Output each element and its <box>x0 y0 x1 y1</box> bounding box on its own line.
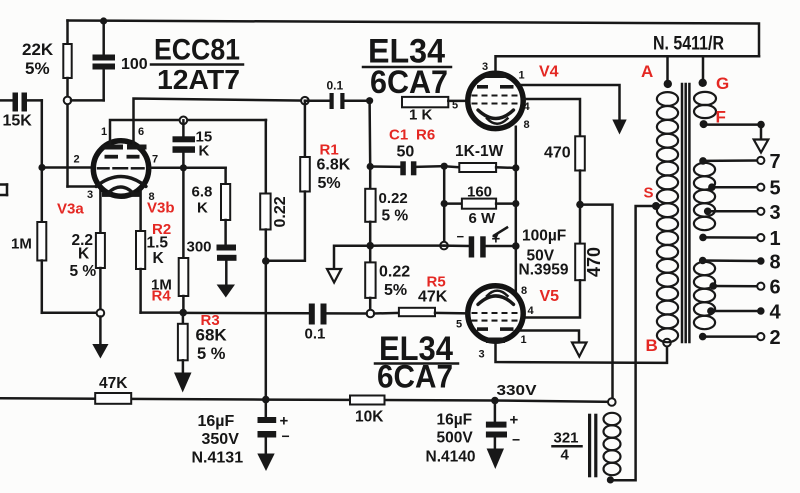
svg-text:V3b: V3b <box>147 200 175 217</box>
transformer G-F winding <box>694 92 716 118</box>
svg-text:F: F <box>716 108 726 127</box>
capacitor input <box>0 93 42 130</box>
svg-text:8: 8 <box>770 252 781 274</box>
svg-text:100: 100 <box>121 56 148 73</box>
wire plate V3a (pin1) <box>110 120 266 146</box>
node screen junction <box>576 201 584 209</box>
svg-text:4: 4 <box>561 447 570 464</box>
svg-text:3: 3 <box>87 189 93 201</box>
resistor 1K grid stopper V4 <box>402 97 468 124</box>
svg-text:160: 160 <box>467 183 492 200</box>
svg-text:R6: R6 <box>416 127 435 144</box>
svg-text:8: 8 <box>521 285 527 297</box>
svg-text:N.4131: N.4131 <box>192 450 244 467</box>
node B+ front end <box>262 257 270 265</box>
ground arrow under 16uF-350 <box>257 454 274 472</box>
wire to ground arrow (hollow) <box>327 246 370 283</box>
node ring V5 grid junction <box>367 310 375 318</box>
resistor 160 6W <box>444 183 516 227</box>
wire cathode column V4 <box>515 127 518 246</box>
resistor R4 1M grid leak V3b <box>151 168 188 313</box>
node choke bottom <box>607 476 614 483</box>
wire top B+ rail <box>68 21 760 57</box>
wire cathode V5 <box>515 246 518 296</box>
svg-text:V4: V4 <box>539 64 559 81</box>
node ring plate V3a <box>180 117 188 125</box>
capacitor 100uF 50V <box>370 228 569 279</box>
node grid V3b <box>180 164 187 171</box>
svg-text:100µF: 100µF <box>522 228 566 245</box>
svg-text:68K: 68K <box>196 326 228 345</box>
capacitor 0.1 lower coupling <box>305 304 367 343</box>
svg-text:470: 470 <box>584 247 604 277</box>
transformer primary winding <box>657 92 678 342</box>
resistor R1 6.8K <box>266 101 351 261</box>
svg-text:+: + <box>280 413 289 430</box>
svg-text:1: 1 <box>521 334 527 346</box>
transformer secondary winding lower <box>694 262 715 329</box>
node 160 left <box>441 200 448 207</box>
svg-text:2: 2 <box>770 327 781 349</box>
tap 7 <box>699 151 780 173</box>
svg-text:1K-1W: 1K-1W <box>455 143 504 160</box>
svg-text:6: 6 <box>138 126 144 138</box>
node F <box>700 120 708 128</box>
svg-text:−: − <box>512 432 520 448</box>
label EL34/6CA7 lower <box>375 330 458 395</box>
svg-text:7: 7 <box>770 151 781 173</box>
svg-text:10K: 10K <box>355 409 384 426</box>
svg-text:5%: 5% <box>25 59 50 78</box>
wire left column <box>443 166 446 245</box>
svg-text:0.1: 0.1 <box>305 326 326 343</box>
svg-text:V3a: V3a <box>57 201 84 218</box>
svg-text:5%: 5% <box>318 175 341 192</box>
resistor 2.2K cathode V3a <box>70 189 105 309</box>
node junction dot top rail <box>100 17 107 24</box>
transformer secondary winding upper <box>694 163 715 230</box>
wire G stem <box>702 56 705 83</box>
ground arrow under R3 <box>174 373 192 393</box>
resistor 22K cathode <box>22 21 72 187</box>
tap 3 <box>704 202 781 224</box>
svg-text:N.4140: N.4140 <box>426 449 476 466</box>
svg-text:−: − <box>282 428 290 444</box>
svg-text:6 W: 6 W <box>469 210 497 227</box>
svg-text:K: K <box>153 250 165 267</box>
node ring B <box>663 339 671 347</box>
svg-text:15K: 15K <box>3 113 33 130</box>
capacitor 100 bypass <box>71 21 148 101</box>
wire S tap down <box>613 206 652 480</box>
svg-text:−: − <box>457 229 465 244</box>
choke 321/4 <box>553 413 621 478</box>
wire input down to grid <box>41 100 44 167</box>
svg-text:4: 4 <box>770 302 782 324</box>
svg-text:47K: 47K <box>418 289 448 306</box>
node S dot <box>652 202 660 210</box>
node C1 junction <box>367 163 374 170</box>
ground arrow under 300 <box>217 285 235 298</box>
svg-text:500V: 500V <box>437 430 474 447</box>
svg-text:G: G <box>716 74 729 93</box>
label ECC81/12AT7 <box>151 34 243 96</box>
svg-text:16µF: 16µF <box>198 413 235 430</box>
node A <box>664 80 672 88</box>
svg-text:1M: 1M <box>11 236 32 253</box>
tube V4 EL34 <box>452 61 531 131</box>
label EL34/6CA7 upper <box>363 33 451 101</box>
resistor 0.22 upper divider <box>365 167 408 246</box>
svg-text:22K: 22K <box>22 40 54 59</box>
svg-text:6CA7: 6CA7 <box>377 359 453 395</box>
svg-text:+: + <box>510 412 519 429</box>
wire grid V3a <box>42 166 94 169</box>
tap 2 <box>699 327 781 349</box>
node F end <box>757 121 765 129</box>
wire A stem <box>666 56 669 84</box>
svg-text:N.3959: N.3959 <box>519 262 569 279</box>
wire pin1 V4 to arrow <box>518 85 620 121</box>
svg-text:1: 1 <box>519 70 525 82</box>
svg-text:1.5: 1.5 <box>147 235 169 252</box>
wire B+ column down to rail <box>265 261 268 400</box>
capacitor 16uF 500V <box>426 401 521 466</box>
resistor 10K dropper <box>350 396 385 426</box>
tap 8 <box>699 252 781 274</box>
svg-text:4: 4 <box>524 101 531 113</box>
svg-text:3: 3 <box>479 349 485 361</box>
svg-text:0.22: 0.22 <box>272 196 289 227</box>
node 330V junction <box>491 397 499 405</box>
svg-text:5 %: 5 % <box>197 345 226 363</box>
svg-text:5 %: 5 % <box>382 208 409 225</box>
svg-text:5: 5 <box>456 319 462 331</box>
bottom 330V rail <box>0 398 612 402</box>
resistor 0.22 lower divider <box>365 246 410 310</box>
svg-text:1: 1 <box>770 228 781 250</box>
wire splitter output lower <box>183 312 309 315</box>
svg-text:K: K <box>197 200 208 217</box>
stub cut component left edge <box>0 185 7 196</box>
resistor 1K-1W <box>444 143 516 172</box>
svg-text:300: 300 <box>187 239 212 256</box>
svg-text:S: S <box>644 185 654 202</box>
resistor 6.8K <box>192 168 231 245</box>
svg-text:3: 3 <box>482 61 488 73</box>
svg-text:47K: 47K <box>99 375 128 392</box>
arrow hollow <box>572 343 587 357</box>
svg-text:5: 5 <box>770 178 781 200</box>
svg-text:K: K <box>199 143 210 160</box>
svg-text:3: 3 <box>770 202 781 224</box>
wire plate V4 to A <box>496 56 760 73</box>
svg-text:0.22: 0.22 <box>379 190 408 207</box>
resistor R5 47K grid stopper V5 <box>374 274 467 317</box>
wire plate V3b (pin6) <box>134 99 306 147</box>
svg-text:470: 470 <box>544 145 571 162</box>
wire plate V5 to B <box>496 341 668 363</box>
node R4/R3 junction <box>179 309 187 317</box>
capacitor 16uF 350V <box>192 400 290 467</box>
svg-text:R4: R4 <box>152 288 172 305</box>
node <box>512 242 520 250</box>
node 0.22 mid junction <box>366 242 374 250</box>
wire pin4 V4 to 470 <box>523 99 580 136</box>
transformer core <box>682 84 689 342</box>
tube V5 EL34 <box>456 285 535 361</box>
svg-text:330V: 330V <box>497 382 537 399</box>
svg-text:7: 7 <box>152 154 158 166</box>
wire grid V3b <box>149 167 226 170</box>
node ring cathode bottom <box>97 309 105 317</box>
arrow down (filled) <box>612 120 626 135</box>
svg-text:4: 4 <box>528 305 535 317</box>
wire screen to 330V <box>580 205 613 399</box>
svg-text:6.8: 6.8 <box>192 184 213 201</box>
node 1K-1W left <box>441 163 448 170</box>
svg-text:321: 321 <box>554 430 579 447</box>
node 16uF-350 junction <box>262 396 270 404</box>
ground arrow under V3a divider <box>92 317 108 359</box>
svg-text:350V: 350V <box>202 431 240 448</box>
capacitor 0.1 upper coupling <box>305 79 369 110</box>
tap 1 <box>699 228 780 250</box>
capacitor C1 50 <box>370 127 444 176</box>
svg-text:16µF: 16µF <box>437 412 473 429</box>
svg-text:K: K <box>78 246 90 263</box>
svg-text:6: 6 <box>770 277 781 299</box>
svg-text:50: 50 <box>397 144 415 161</box>
resistor 470 screen V4 <box>544 136 585 204</box>
svg-text:12AT7: 12AT7 <box>157 64 240 95</box>
svg-text:2: 2 <box>74 154 80 166</box>
resistor R3 68K <box>178 312 228 374</box>
wire pin1 V5 to hollow arrow <box>518 331 580 345</box>
wire cathode to pin3 <box>68 185 101 188</box>
node ring V3b plate to 0.1 <box>301 97 309 105</box>
svg-text:5%: 5% <box>384 282 407 299</box>
node G <box>699 79 707 87</box>
svg-text:A: A <box>641 62 653 81</box>
svg-text:B: B <box>646 336 658 355</box>
ground hollow under F <box>754 125 769 153</box>
wire divider column <box>368 101 371 167</box>
svg-text:ECC81: ECC81 <box>154 34 240 67</box>
tap 5 <box>708 178 781 200</box>
tap 6 <box>709 277 780 299</box>
resistor R2 1.5K cathode V3b <box>136 189 183 313</box>
node V4 grid junction <box>366 97 373 104</box>
svg-text:C1: C1 <box>389 127 408 144</box>
svg-text:0.1: 0.1 <box>327 79 344 93</box>
svg-text:N. 5411/R: N. 5411/R <box>653 34 724 55</box>
svg-text:1: 1 <box>101 126 107 138</box>
svg-text:5: 5 <box>452 100 458 112</box>
svg-text:V5: V5 <box>540 288 560 305</box>
svg-text:8: 8 <box>524 119 530 131</box>
node <box>512 200 519 207</box>
resistor 47K feedback <box>95 375 131 404</box>
svg-text:6CA7: 6CA7 <box>370 64 448 100</box>
node <box>512 164 519 171</box>
ground arrow under 16uF-500 <box>487 449 504 470</box>
resistor 470 screen V5 <box>523 205 604 318</box>
tube V3 ECC81 <box>74 126 159 203</box>
node ring 100uF left <box>440 242 448 250</box>
resistor 1M grid leak <box>11 168 97 313</box>
svg-text:6.8K: 6.8K <box>317 157 351 174</box>
wire F <box>704 123 761 126</box>
node cathode V3a ring <box>64 97 72 105</box>
svg-text:1 K: 1 K <box>409 107 433 124</box>
node ring choke top <box>608 398 616 406</box>
svg-text:5 %: 5 % <box>70 263 97 280</box>
capacitor 300 <box>187 239 237 287</box>
node grid V3a <box>38 164 45 171</box>
capacitor 15K interstage <box>173 120 213 168</box>
tap 4 <box>707 302 781 324</box>
resistor 0.22M plate load V3a (rotated label) <box>260 120 289 261</box>
svg-text:0.22: 0.22 <box>379 264 410 281</box>
